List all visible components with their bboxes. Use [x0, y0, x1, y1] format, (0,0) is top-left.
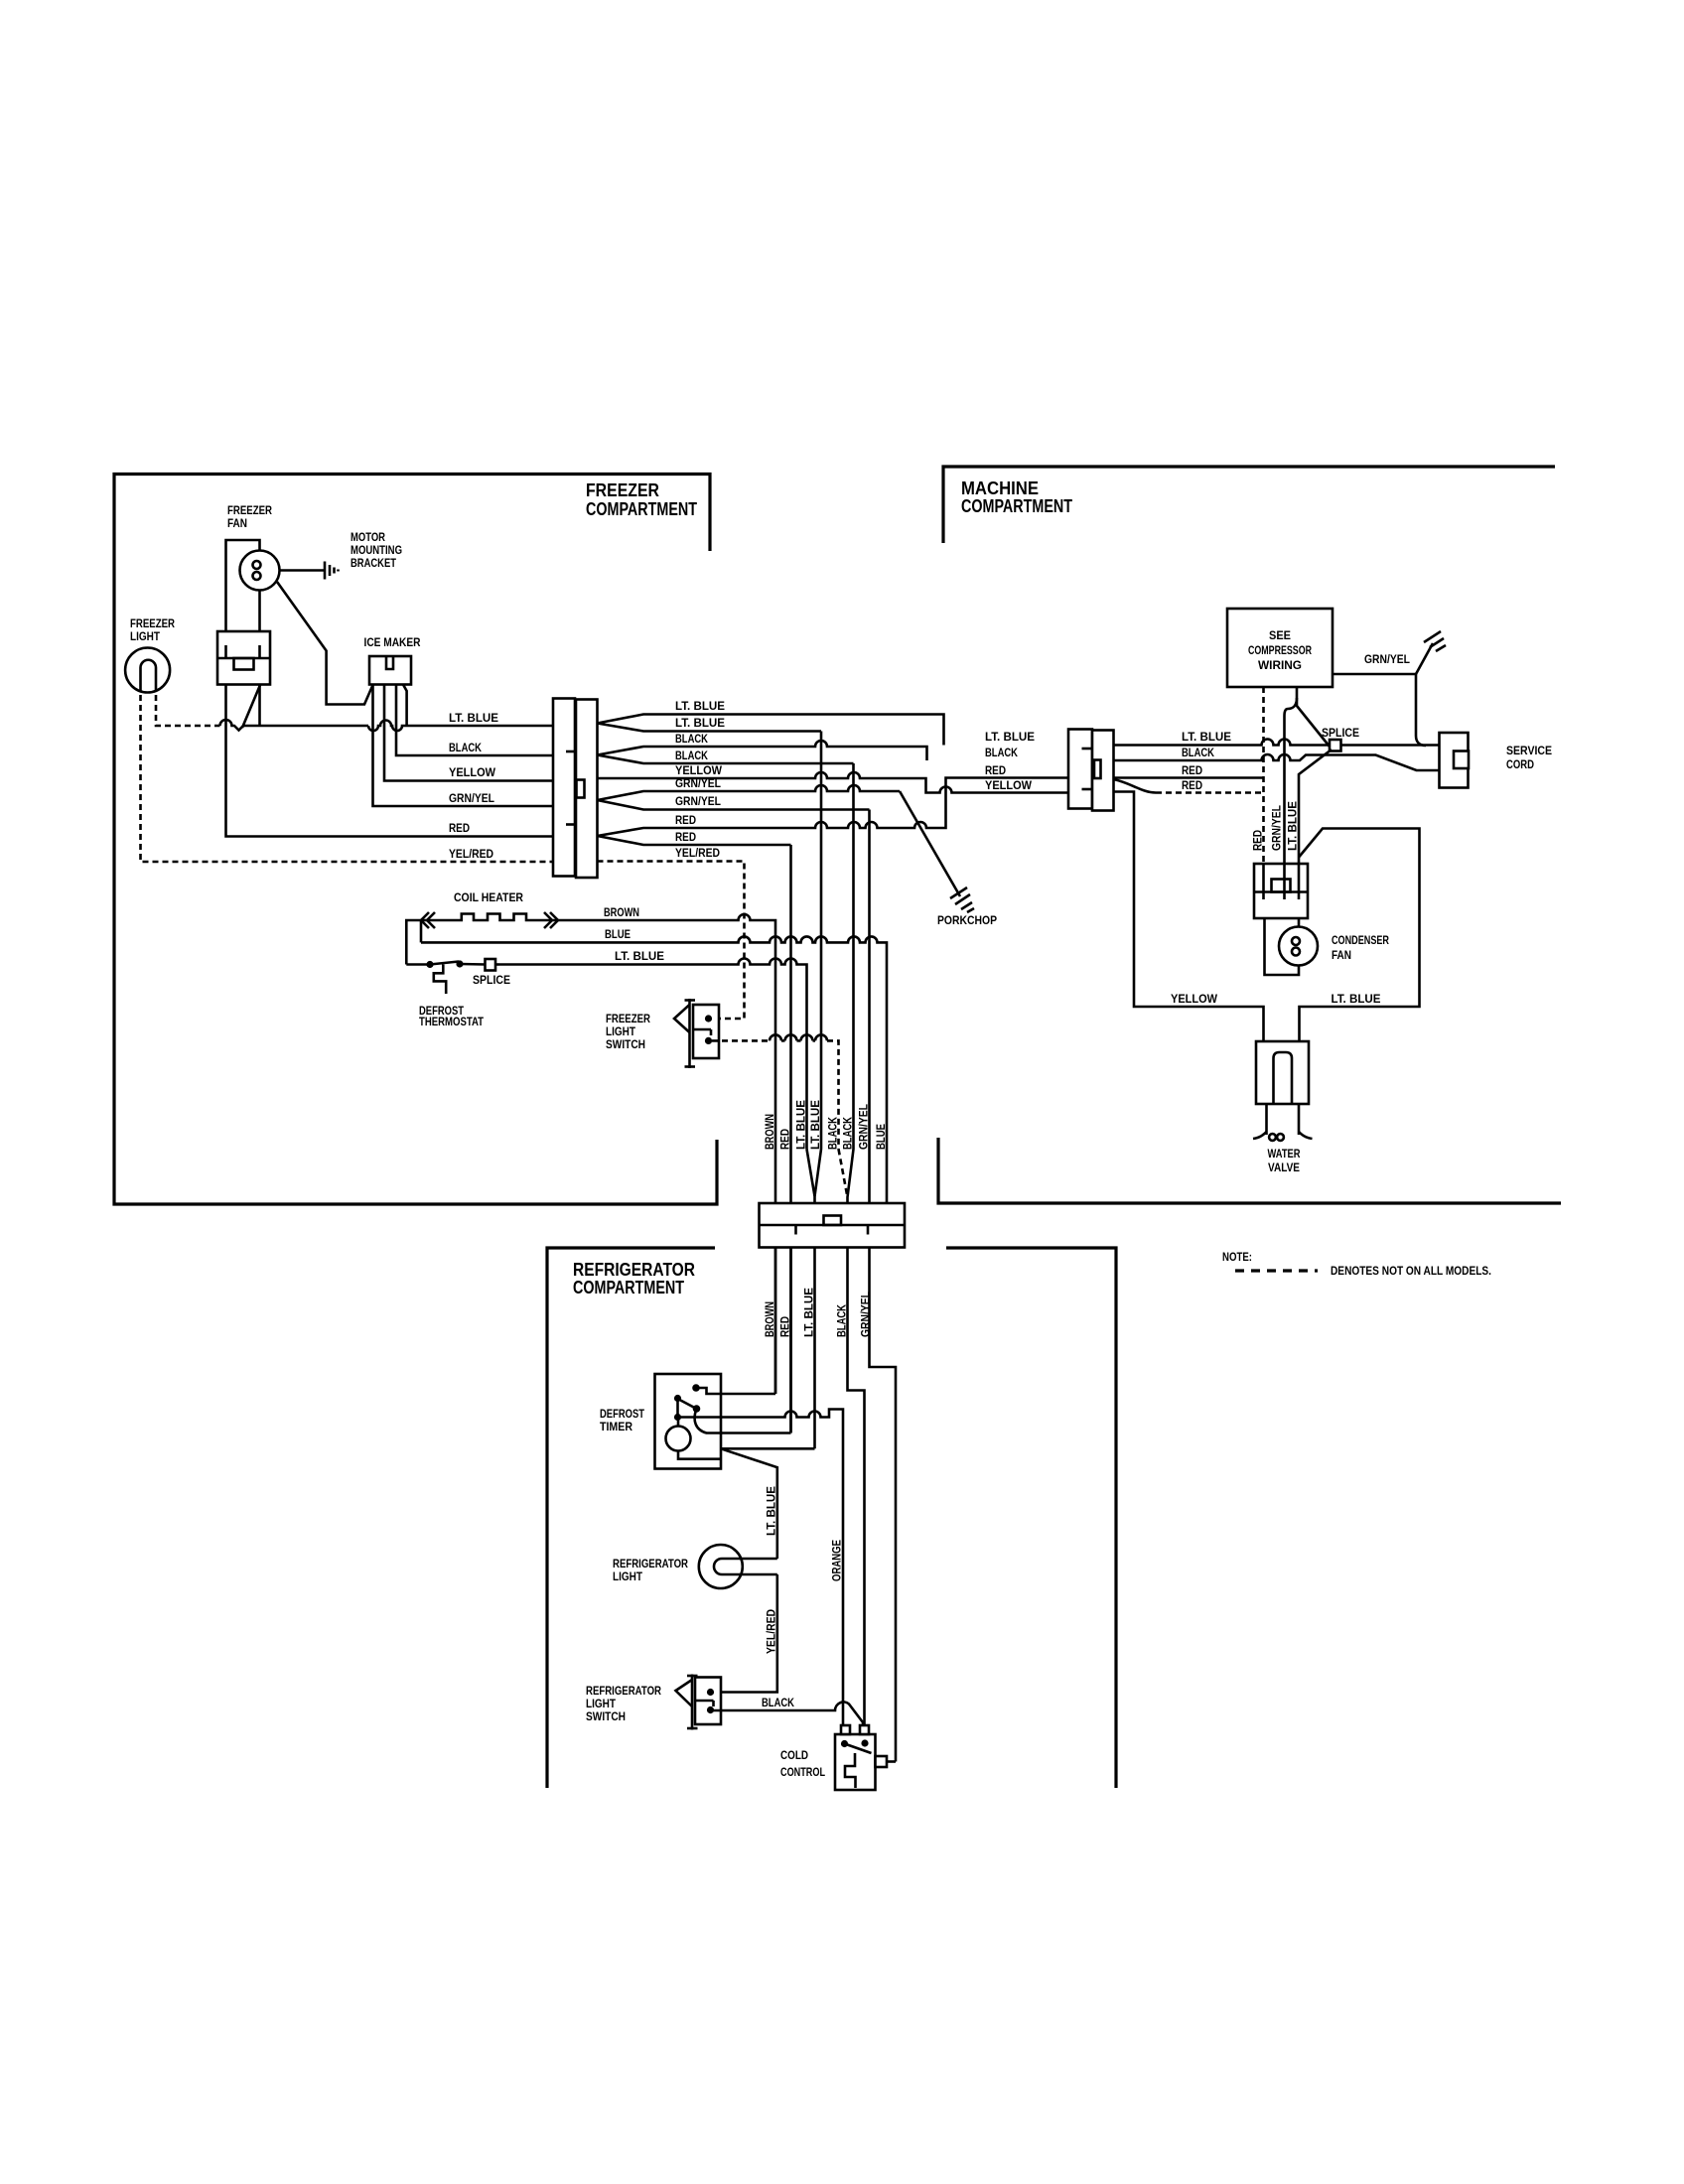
wire LT.BLUE coil row	[499, 959, 807, 1150]
label RED left	[449, 821, 470, 835]
svg-text:RED: RED	[1182, 778, 1202, 792]
svg-text:PORKCHOP: PORKCHOP	[937, 913, 997, 927]
wire BLACK switch to cold control	[711, 1702, 864, 1725]
svg-text:LT. BLUE: LT. BLUE	[615, 949, 664, 963]
wire porkchop diagonal	[900, 791, 960, 896]
svg-text:SPLICE: SPLICE	[1322, 726, 1359, 740]
wire freezer fan loop	[226, 540, 260, 631]
svg-text:RED: RED	[675, 813, 696, 827]
svg-text:GRN/YEL: GRN/YEL	[675, 776, 721, 790]
svg-text:THERMOSTAT: THERMOSTAT	[419, 1015, 485, 1028]
motor mounting bracket label	[351, 530, 402, 570]
label LT. BLUE coil	[615, 949, 664, 963]
refrigerator compartment border	[547, 1248, 1116, 1788]
water valve label	[1268, 1147, 1301, 1174]
porkchop ground hatching	[950, 887, 974, 912]
svg-text:GRN/YEL: GRN/YEL	[1364, 652, 1410, 666]
defrost thermostat sensing element	[434, 965, 446, 995]
defrost timer contacts	[674, 1384, 700, 1421]
ice maker pin YELLOW	[384, 685, 553, 781]
machine compartment border	[938, 467, 1561, 1203]
wire RED dashed vertical to compressor connector	[1262, 687, 1265, 865]
refrigerator harness connector J3	[760, 1203, 906, 1248]
svg-text:MOTOR: MOTOR	[351, 530, 385, 544]
label BLACK right 2	[675, 749, 708, 762]
wire crimp pair RED right	[598, 778, 1069, 846]
svg-text:BLACK: BLACK	[826, 1117, 840, 1150]
svg-text:BLUE: BLUE	[605, 927, 631, 941]
wire compressor connector to condenser fan loop	[1265, 918, 1300, 975]
svg-text:REFRIGERATOR: REFRIGERATOR	[573, 1260, 695, 1280]
svg-text:BROWN: BROWN	[763, 1114, 776, 1150]
svg-text:FREEZER: FREEZER	[227, 503, 272, 517]
service cord connector	[1440, 733, 1470, 788]
svg-text:MACHINE: MACHINE	[961, 478, 1039, 498]
service cord label	[1506, 744, 1552, 771]
wire timer pole to ORANGE	[678, 1410, 844, 1726]
svg-text:LT. BLUE: LT. BLUE	[675, 699, 725, 713]
motor mounting bracket ground symbol	[325, 562, 339, 580]
note text denotes not on all models	[1331, 1264, 1491, 1278]
wire timer to refrigerator light LT.BLUE	[721, 1448, 777, 1559]
wire fan connector to RED row	[226, 685, 554, 837]
svg-text:BLACK: BLACK	[841, 1117, 855, 1150]
rotated label ORANGE	[830, 1540, 844, 1581]
condenser fan motor	[1279, 927, 1318, 966]
svg-text:DEFROST: DEFROST	[600, 1407, 645, 1421]
label LT. BLUE machine left	[985, 730, 1035, 744]
label GRN/YEL machine	[1364, 652, 1410, 666]
svg-text:CORD: CORD	[1506, 757, 1534, 771]
wire BROWN vertical (drawn with coil heater row above)	[774, 1393, 777, 1396]
svg-text:BLUE: BLUE	[874, 1124, 888, 1150]
svg-text:BLACK: BLACK	[1182, 746, 1214, 759]
svg-text:BRACKET: BRACKET	[351, 556, 397, 570]
wire RED machine dashed subrow	[1114, 779, 1264, 793]
wire LT.BLUE splice to compressor connector	[1299, 750, 1332, 865]
svg-text:LT. BLUE: LT. BLUE	[675, 716, 725, 730]
label YELLOW machine left	[985, 778, 1033, 792]
wire YEL/RED right dashed	[598, 862, 745, 1020]
svg-text:FREEZER: FREEZER	[586, 480, 659, 500]
rotated label LT. BLUE to light	[765, 1486, 778, 1536]
svg-text:MOUNTING: MOUNTING	[351, 543, 402, 557]
label YELLOW left	[449, 765, 496, 779]
label GRN/YEL right 1	[675, 776, 721, 790]
rotated labels compressor wires	[1251, 801, 1300, 851]
svg-text:BLACK: BLACK	[675, 749, 708, 762]
svg-text:GRN/YEL: GRN/YEL	[859, 1292, 873, 1337]
wire crimp pair BLACK right	[598, 741, 927, 763]
svg-text:LT. BLUE: LT. BLUE	[802, 1288, 816, 1337]
wire GRN/YEL vertical to compressor connector	[1285, 698, 1298, 865]
freezer light switch label	[606, 1012, 650, 1051]
svg-text:YEL/RED: YEL/RED	[765, 1609, 778, 1654]
ice maker pin LT.BLUE diagonal	[403, 685, 407, 727]
svg-text:BLACK: BLACK	[985, 746, 1018, 759]
freezer fan connector	[217, 631, 270, 685]
refrigerator light switch bracket	[676, 1675, 698, 1730]
svg-text:LIGHT: LIGHT	[606, 1024, 636, 1038]
label RED right 2	[675, 830, 696, 844]
machine compartment title	[961, 478, 1072, 516]
wire BLUE row	[421, 936, 887, 1247]
svg-text:ICE MAKER: ICE MAKER	[364, 635, 421, 649]
wire timer contact to RED	[695, 1409, 791, 1433]
svg-text:FREEZER: FREEZER	[606, 1012, 650, 1025]
coil heater element BROWN row	[406, 914, 775, 1395]
svg-text:SERVICE: SERVICE	[1506, 744, 1552, 757]
svg-text:WATER: WATER	[1268, 1147, 1301, 1160]
svg-text:CONDENSER: CONDENSER	[1332, 933, 1389, 947]
label BLACK machine left	[985, 746, 1018, 759]
label LT. BLUE condenser	[1332, 992, 1381, 1006]
cold control	[835, 1725, 896, 1790]
label BROWN coil	[604, 905, 639, 919]
machine connector J2	[1068, 730, 1114, 811]
svg-text:LT. BLUE: LT. BLUE	[1182, 730, 1231, 744]
svg-text:SWITCH: SWITCH	[586, 1709, 626, 1723]
svg-text:TIMER: TIMER	[600, 1420, 632, 1433]
svg-text:LT. BLUE: LT. BLUE	[765, 1486, 778, 1536]
svg-text:COIL HEATER: COIL HEATER	[454, 890, 523, 904]
svg-text:RED: RED	[778, 1129, 792, 1150]
note dashed sample line	[1235, 1269, 1318, 1272]
wire YELLOW right row	[598, 772, 1069, 793]
refrigerator light switch	[695, 1678, 721, 1725]
refrigerator light switch label	[586, 1684, 661, 1723]
wire RED machine row solid	[1114, 776, 1264, 779]
label BLACK refrigerator	[762, 1696, 794, 1709]
svg-text:GRN/YEL: GRN/YEL	[675, 794, 721, 808]
svg-text:BROWN: BROWN	[763, 1301, 776, 1337]
wire LT.BLUE condenser loop	[1299, 829, 1420, 1042]
refrigerator light label	[613, 1557, 688, 1583]
note label	[1222, 1250, 1252, 1264]
svg-text:BROWN: BROWN	[604, 905, 639, 919]
svg-text:LT. BLUE: LT. BLUE	[985, 730, 1035, 744]
svg-text:LT. BLUE: LT. BLUE	[1286, 801, 1300, 851]
svg-text:RED: RED	[1251, 830, 1265, 851]
label BLACK left	[449, 741, 482, 754]
svg-text:SWITCH: SWITCH	[606, 1037, 645, 1051]
defrost timer motor	[666, 1418, 722, 1459]
defrost timer label	[600, 1407, 645, 1433]
label BLACK right 1	[675, 732, 708, 746]
compressor connector	[1254, 864, 1308, 918]
wire motor mounting bracket lead	[280, 569, 326, 572]
wires through connector J3 down	[775, 1248, 865, 1726]
label YELLOW machine bottom	[1171, 992, 1218, 1006]
svg-text:FAN: FAN	[1332, 948, 1351, 962]
label RED machine right	[1182, 763, 1202, 777]
svg-text:COMPARTMENT: COMPARTMENT	[961, 496, 1072, 516]
svg-text:YELLOW: YELLOW	[675, 763, 723, 777]
svg-text:GRN/YEL: GRN/YEL	[449, 791, 494, 805]
svg-text:RED: RED	[449, 821, 470, 835]
svg-text:REFRIGERATOR: REFRIGERATOR	[613, 1557, 688, 1570]
defrost thermostat label	[419, 1004, 485, 1028]
water valve	[1253, 1041, 1313, 1141]
freezer light bulb	[125, 648, 170, 693]
label BLACK machine right	[1182, 746, 1214, 759]
wire freezer fan to ice maker diagonal	[277, 582, 373, 705]
wire splice to compressor box	[1297, 687, 1330, 747]
svg-text:FAN: FAN	[227, 516, 247, 530]
rotated label YEL/RED refrigerator	[765, 1609, 778, 1654]
wire crimp pair LT.BLUE right	[598, 715, 944, 746]
svg-text:YELLOW: YELLOW	[1171, 992, 1218, 1006]
svg-text:BLACK: BLACK	[675, 732, 708, 746]
freezer compartment border	[114, 475, 717, 1205]
defrost thermostat contacts and blade	[406, 960, 485, 968]
svg-text:YELLOW: YELLOW	[985, 778, 1033, 792]
freezer compartment title	[586, 480, 697, 519]
splice label (machine)	[1322, 726, 1359, 740]
wire GRN/YEL from compressor box to ground and cord	[1333, 643, 1433, 746]
svg-text:FREEZER: FREEZER	[130, 616, 175, 630]
svg-text:COMPRESSOR: COMPRESSOR	[1248, 643, 1312, 657]
label YEL/RED left	[449, 847, 493, 861]
wire YELLOW to water valve	[1114, 792, 1264, 1042]
ice maker pin GRN/YEL	[373, 685, 554, 807]
svg-text:LT. BLUE: LT. BLUE	[808, 1100, 822, 1150]
svg-text:REFRIGERATOR: REFRIGERATOR	[586, 1684, 661, 1698]
svg-text:YEL/RED: YEL/RED	[449, 847, 493, 861]
label YELLOW right	[675, 763, 723, 777]
svg-text:LIGHT: LIGHT	[586, 1697, 617, 1710]
wire LT.BLUE into timer	[721, 1447, 815, 1450]
svg-text:COLD: COLD	[780, 1748, 808, 1762]
wire GRN/YEL vertical	[870, 810, 897, 1762]
svg-text:SPLICE: SPLICE	[473, 973, 510, 987]
svg-text:LT. BLUE: LT. BLUE	[1332, 992, 1381, 1006]
svg-text:GRN/YEL: GRN/YEL	[1270, 805, 1284, 851]
splice (machine)	[1330, 740, 1341, 751]
freezer light label	[130, 616, 175, 643]
label YEL/RED right	[675, 846, 720, 860]
svg-text:LIGHT: LIGHT	[613, 1570, 643, 1583]
label BLUE coil	[605, 927, 631, 941]
main connector J1	[553, 699, 598, 879]
freezer fan label	[227, 503, 272, 530]
label RED machine dashed	[1182, 778, 1202, 792]
svg-text:BLACK: BLACK	[762, 1696, 794, 1709]
svg-text:LIGHT: LIGHT	[130, 629, 161, 643]
porkchop label	[937, 913, 997, 927]
svg-text:RED: RED	[675, 830, 696, 844]
label LT. BLUE left	[449, 711, 498, 725]
wire LT.BLUE machine row to splice	[1114, 740, 1331, 746]
label GRN/YEL left	[449, 791, 494, 805]
svg-text:YELLOW: YELLOW	[449, 765, 496, 779]
coil heater label	[454, 890, 523, 904]
rotated bundle labels below connector	[763, 1288, 873, 1337]
svg-text:COMPARTMENT: COMPARTMENT	[573, 1278, 684, 1297]
svg-text:RED: RED	[778, 1316, 792, 1337]
refrigerator light bulb	[699, 1545, 777, 1588]
wire timer contact to BROWN	[696, 1388, 775, 1394]
svg-text:YEL/RED: YEL/RED	[675, 846, 720, 860]
svg-text:DENOTES NOT ON ALL MODELS.: DENOTES NOT ON ALL MODELS.	[1331, 1264, 1491, 1278]
label LT. BLUE right 1	[675, 699, 725, 713]
defrost timer box	[655, 1374, 722, 1469]
condenser fan label	[1332, 933, 1389, 962]
svg-text:LT. BLUE: LT. BLUE	[449, 711, 498, 725]
rotated bundle labels above connector	[763, 1100, 888, 1150]
wire BLACK verticals merge V2	[839, 763, 854, 1248]
svg-text:RED: RED	[985, 763, 1006, 777]
svg-text:NOTE:: NOTE:	[1222, 1250, 1252, 1264]
wire RED vertical	[789, 845, 792, 1433]
svg-text:COMPARTMENT: COMPARTMENT	[586, 499, 697, 519]
see compressor wiring box	[1227, 609, 1333, 687]
svg-text:LT. BLUE: LT. BLUE	[794, 1100, 808, 1150]
splice label (freezer)	[473, 973, 510, 987]
label RED machine left	[985, 763, 1006, 777]
svg-text:CONTROL: CONTROL	[780, 1765, 825, 1779]
freezer light switch	[693, 1005, 719, 1058]
label RED right 1	[675, 813, 696, 827]
label LT. BLUE machine right	[1182, 730, 1231, 744]
ice maker connector	[369, 656, 411, 685]
wire freezer light left leg dashed YEL/RED	[141, 685, 554, 862]
coil heater arrow marks	[421, 912, 558, 928]
svg-text:WIRING: WIRING	[1258, 658, 1302, 672]
ground hatching top right	[1424, 631, 1446, 651]
cold control label	[780, 1748, 825, 1779]
wire YEL/RED light to switch	[711, 1574, 777, 1693]
wire freezer light right leg to LT.BLUE net	[156, 685, 553, 731]
label GRN/YEL right 2	[675, 794, 721, 808]
svg-text:GRN/YEL: GRN/YEL	[857, 1104, 871, 1150]
freezer light switch bracket	[674, 999, 695, 1068]
svg-text:RED: RED	[1182, 763, 1202, 777]
refrigerator compartment title	[573, 1260, 695, 1297]
label LT. BLUE right 2	[675, 716, 725, 730]
svg-text:VALVE: VALVE	[1268, 1160, 1300, 1174]
svg-text:BLACK: BLACK	[835, 1304, 849, 1337]
wire LT.BLUE splice to service cord	[1341, 744, 1440, 747]
wire BLACK machine row to service cord	[1114, 754, 1440, 770]
wire crimp pair GRN/YEL right	[598, 785, 901, 810]
svg-text:ORANGE: ORANGE	[830, 1540, 844, 1581]
splice (freezer)	[486, 959, 500, 971]
svg-text:SEE: SEE	[1269, 628, 1291, 642]
ice maker label	[364, 635, 421, 649]
ice maker pin BLACK	[396, 685, 553, 756]
freezer fan motor M1	[240, 551, 280, 591]
wire LT.BLUE verticals merge V1	[807, 732, 822, 1248]
wire fan connector bottom-right diagonal	[242, 685, 260, 729]
svg-text:BLACK: BLACK	[449, 741, 482, 754]
wire freezer light switch dashed BLACK	[712, 1034, 839, 1149]
